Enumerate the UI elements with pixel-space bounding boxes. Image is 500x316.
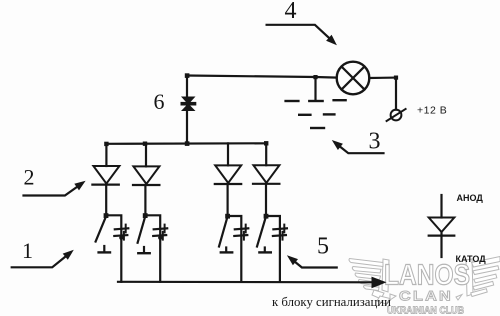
left wing feather 5 — [364, 286, 379, 291]
node: junction dot bus at D2 — [143, 142, 147, 146]
callout arrow 1 — [12, 250, 74, 267]
battery plates row 2 — [299, 114, 310, 116]
door switch S1 — [96, 213, 129, 282]
door switch S2 — [138, 213, 168, 282]
battery plates row 1 — [286, 100, 299, 102]
right wing root — [466, 259, 473, 296]
logo watermark LANOS CLAN — [349, 257, 500, 316]
wire: bottom bus to alarm block — [118, 281, 373, 284]
svg-text:к блоку сигнализации: к блоку сигнализации — [272, 294, 391, 309]
left wing top feather — [349, 259, 383, 267]
left wing lower feather 2 — [377, 296, 390, 304]
right wing feather 3 — [474, 274, 497, 283]
node: corner dot bus left end — [104, 142, 108, 146]
node: junction dot bus at node 6 — [185, 141, 190, 146]
wire: top horizontal from node 6 to lamp — [187, 76, 337, 78]
callout arrow 5 — [287, 255, 337, 267]
right wing feather 2 — [473, 266, 499, 275]
wire: top distribution bus — [106, 142, 266, 145]
wire: vertical node 6 branch — [186, 76, 188, 144]
node: junction dot at top of node-6 branch — [185, 73, 190, 78]
left wing feather 4 — [359, 280, 380, 287]
left wing feather 2 — [352, 267, 381, 274]
svg-text:5: 5 — [317, 234, 329, 260]
diode D3 — [215, 143, 241, 215]
door switch S3 — [219, 214, 248, 282]
terminal +12V (circle with slash) — [391, 110, 402, 121]
wire: down to +12V terminal — [395, 78, 397, 110]
clan right bracket — [456, 295, 462, 301]
svg-text:CLAN: CLAN — [399, 288, 453, 304]
node: junction dot bus at D4 — [264, 141, 268, 145]
door switch S4 — [257, 214, 287, 282]
battery plates row 3 — [311, 127, 324, 129]
node: junction dot battery tap — [313, 75, 317, 79]
svg-text:UKRAINIAN CLUB: UKRAINIAN CLUB — [387, 305, 464, 316]
node: junction dot at +12V tap — [394, 76, 398, 80]
callout arrow 2 — [24, 181, 86, 196]
svg-text:4: 4 — [285, 0, 297, 24]
lamp — [337, 62, 370, 95]
reference diode (right legend) — [429, 195, 455, 257]
right wing feather 4 — [473, 281, 494, 290]
svg-text:+12 В: +12 В — [417, 105, 447, 117]
svg-text:1: 1 — [22, 238, 33, 263]
bus arrowhead to alarm block — [372, 277, 387, 289]
left wing feather 3 — [355, 273, 380, 280]
left wing root — [382, 259, 389, 292]
diode 6 (filled, on vertical branch) — [181, 97, 197, 112]
svg-text:3: 3 — [369, 128, 381, 154]
callout arrow 4 — [267, 25, 337, 45]
right wing feather 5 — [471, 289, 488, 297]
diode D4 — [253, 143, 279, 215]
callout arrow 3 — [332, 140, 384, 153]
clan left bracket — [390, 294, 396, 300]
svg-text:2: 2 — [24, 165, 35, 190]
svg-text:АНОД: АНОД — [457, 193, 484, 203]
wire: lamp to +12V tap — [369, 76, 396, 79]
diode D2 — [133, 144, 159, 214]
diode D1 — [92, 144, 119, 214]
right wing top feather — [472, 257, 500, 268]
battery / wire down — [314, 77, 316, 101]
svg-text:6: 6 — [154, 89, 165, 114]
svg-text:КАТОД: КАТОД — [456, 254, 487, 264]
left wing lower feather 1 — [372, 290, 384, 299]
